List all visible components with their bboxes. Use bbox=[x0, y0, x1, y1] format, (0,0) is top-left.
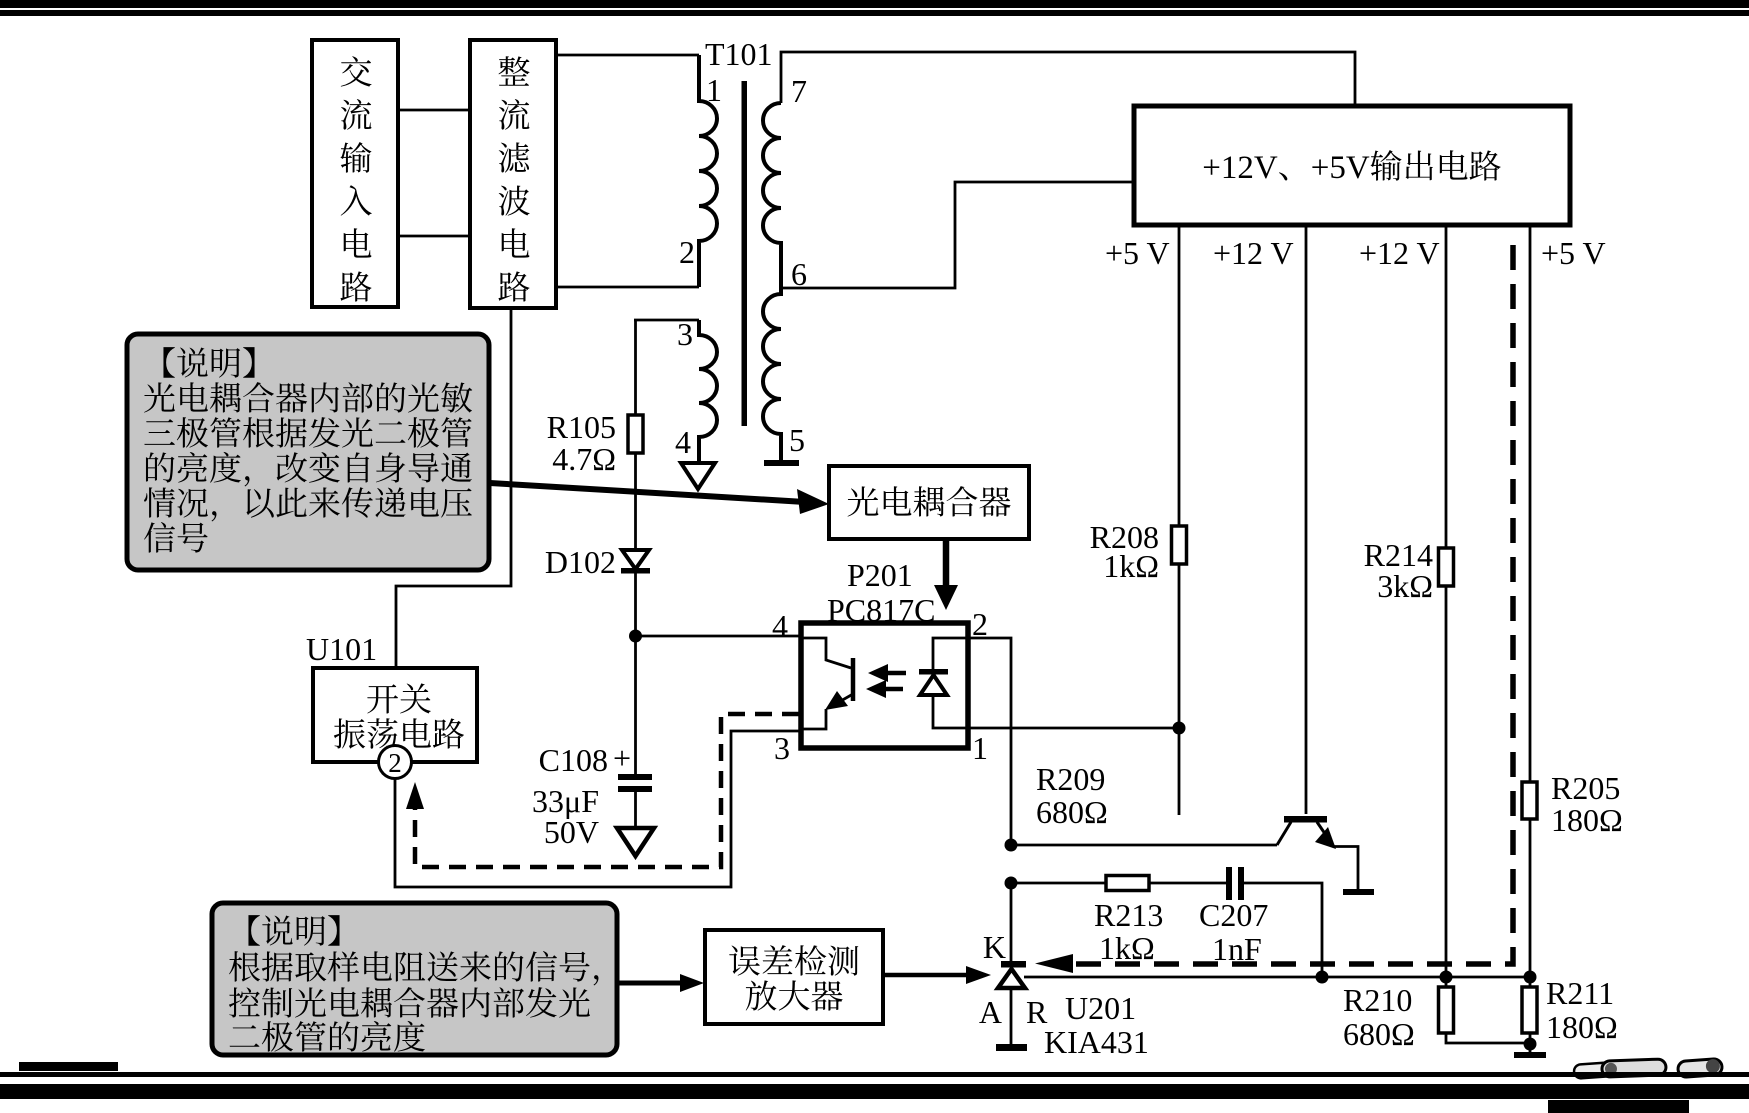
svg-text:光电耦合器: 光电耦合器 bbox=[847, 477, 1012, 524]
wire T101 pin7 top to output box bbox=[781, 52, 1355, 106]
+12V rail 1 label bbox=[1213, 235, 1294, 271]
wire KIA431 K node up / R213 branch bbox=[1011, 882, 1106, 885]
svg-text:D102: D102 bbox=[545, 544, 616, 580]
thick arrow photocoupler box to P201 bbox=[934, 539, 958, 610]
hot ground under C108 bbox=[617, 828, 654, 856]
node: R wire / R210 junction bbox=[1440, 971, 1453, 984]
svg-text:P201: P201 bbox=[847, 557, 913, 593]
svg-text:R211: R211 bbox=[1546, 975, 1614, 1011]
svg-text:电: 电 bbox=[340, 219, 373, 266]
shunt regulator U201 triangle bbox=[998, 969, 1025, 988]
resistor R105 symbol bbox=[628, 415, 643, 453]
pin 4 label bbox=[772, 608, 788, 644]
opto phototransistor collector bbox=[801, 638, 851, 668]
svg-text:4.7Ω: 4.7Ω bbox=[552, 441, 616, 477]
pin 2 label bbox=[972, 606, 988, 642]
R211 value label bbox=[1546, 975, 1618, 1045]
wire D102 to C108 bbox=[634, 573, 637, 775]
U201 KIA431 type label bbox=[1044, 1024, 1149, 1060]
+12V rail 2 wire bbox=[1445, 225, 1448, 987]
svg-text:二极管的亮度: 二极管的亮度 bbox=[228, 1012, 426, 1059]
wire AC box to rectifier box (upper) bbox=[398, 109, 470, 112]
svg-text:R213: R213 bbox=[1094, 897, 1163, 933]
+5V rail 1 wire bbox=[1178, 225, 1181, 815]
svg-text:680Ω: 680Ω bbox=[1343, 1016, 1415, 1052]
note box 1 说明 bbox=[127, 334, 489, 570]
svg-text:180Ω: 180Ω bbox=[1546, 1009, 1618, 1045]
pin 7 label bbox=[791, 73, 807, 109]
wire node to transistor collector bbox=[1011, 844, 1277, 847]
svg-text:R205: R205 bbox=[1551, 770, 1620, 806]
opto phototransistor emitter with arrow bbox=[801, 691, 853, 729]
transistor Q201 collector bbox=[1277, 822, 1291, 845]
svg-text:电: 电 bbox=[498, 219, 531, 266]
resistor R205 symbol bbox=[1522, 782, 1537, 819]
resistor R105 label bbox=[547, 409, 616, 477]
diode D102 label bbox=[545, 544, 616, 580]
svg-text:路: 路 bbox=[340, 262, 373, 309]
svg-text:3kΩ: 3kΩ bbox=[1377, 568, 1433, 604]
block: switching oscillator U101 开关振荡电路 bbox=[313, 668, 477, 762]
U101 reference label bbox=[306, 631, 377, 667]
note box 2 说明 bbox=[212, 903, 624, 1059]
pin 5 terminal bar bbox=[764, 460, 799, 466]
svg-text:1: 1 bbox=[972, 730, 988, 766]
diode D102 symbol bbox=[621, 550, 650, 574]
svg-text:入: 入 bbox=[340, 176, 373, 223]
wire rectifier box to T101 pin2 bbox=[556, 286, 699, 289]
node: R wire / C207 junction bbox=[1316, 971, 1329, 984]
svg-text:R210: R210 bbox=[1343, 982, 1412, 1018]
transformer T101 secondary winding 6-5 bbox=[763, 288, 781, 461]
KIA431 K label bbox=[983, 929, 1006, 965]
U201 reference label bbox=[1065, 990, 1136, 1026]
svg-text:1: 1 bbox=[706, 72, 722, 108]
svg-text:放大器: 放大器 bbox=[745, 971, 844, 1018]
wire R213 to C207 bbox=[1149, 882, 1227, 885]
svg-text:3: 3 bbox=[774, 730, 790, 766]
+5V rail 1 label bbox=[1105, 235, 1170, 271]
wire winding3 top to R105 line bbox=[634, 319, 699, 322]
svg-text:5: 5 bbox=[789, 422, 805, 458]
KIA431 R terminal wire to divider bbox=[1024, 976, 1530, 979]
wire rectifier box to T101 pin1 bbox=[556, 54, 699, 57]
node: R wire / R211 junction bbox=[1524, 971, 1537, 984]
bottom thin rule bbox=[0, 1072, 1749, 1077]
svg-text:680Ω: 680Ω bbox=[1036, 794, 1108, 830]
svg-text:输: 输 bbox=[340, 133, 373, 180]
svg-text:路: 路 bbox=[498, 262, 531, 309]
wire C207 to R terminal node bbox=[1244, 883, 1322, 977]
+5V rail 2 label bbox=[1541, 235, 1606, 271]
svg-text:K: K bbox=[983, 929, 1006, 965]
KIA431 anode wire bbox=[1010, 988, 1013, 1044]
node: opto pin1 to +5V rail junction bbox=[1173, 722, 1186, 735]
svg-text:R105: R105 bbox=[547, 409, 616, 445]
block: photocoupler 光电耦合器 bbox=[829, 466, 1029, 539]
block: rectifier filter circuit 整流滤波电路 bbox=[470, 40, 556, 309]
svg-text:1kΩ: 1kΩ bbox=[1099, 930, 1155, 966]
svg-text:流: 流 bbox=[498, 90, 531, 137]
dashed feedback arrowhead at pin2 circle bbox=[406, 782, 424, 809]
svg-text:U101: U101 bbox=[306, 631, 377, 667]
arrow error amp to KIA431 K bbox=[883, 966, 991, 984]
KIA431 anode end bar bbox=[996, 1044, 1027, 1051]
R205 value label bbox=[1551, 770, 1623, 838]
C207 value label bbox=[1199, 897, 1268, 967]
R210 value label bbox=[1343, 982, 1415, 1052]
node: R213 wire junction bbox=[1005, 877, 1018, 890]
capacitor C108 label bbox=[532, 740, 631, 850]
opto LED symbol bbox=[919, 638, 968, 728]
svg-text:4: 4 bbox=[772, 608, 788, 644]
resistor R210 symbol bbox=[1439, 987, 1454, 1033]
bottom thick bar bbox=[0, 1084, 1749, 1099]
arrow note1 to photocoupler box bbox=[490, 483, 829, 514]
resistor R208 symbol bbox=[1172, 526, 1187, 564]
svg-text:2: 2 bbox=[388, 748, 402, 778]
node: R210/R211 bottom junction bbox=[1524, 1038, 1537, 1051]
wire opto pin1 to +5V rail bbox=[968, 727, 1179, 730]
svg-text:+12 V: +12 V bbox=[1213, 235, 1294, 271]
svg-text:A: A bbox=[979, 994, 1002, 1030]
svg-text:T101: T101 bbox=[705, 36, 773, 72]
opto phototransistor bar bbox=[851, 658, 856, 701]
ground bar under R211 bbox=[1514, 1052, 1546, 1058]
resistor R209 label bbox=[1036, 761, 1108, 830]
R213 value label bbox=[1094, 897, 1163, 966]
transformer T101 primary winding 1-2 bbox=[699, 55, 717, 287]
transistor Q201 base bar bbox=[1284, 816, 1327, 823]
node: collector wire junction bbox=[1005, 839, 1018, 852]
svg-text:7: 7 bbox=[791, 73, 807, 109]
pin 3 label bbox=[774, 730, 790, 766]
pin 2 label bbox=[679, 234, 695, 270]
svg-text:+5 V: +5 V bbox=[1541, 235, 1606, 271]
svg-text:+: + bbox=[613, 740, 631, 776]
KIA431 cathode bar bbox=[1001, 961, 1026, 968]
dashed feedback path opto pin3 to U101 pin2 bbox=[415, 714, 799, 867]
svg-text:4: 4 bbox=[675, 424, 691, 460]
svg-text:流: 流 bbox=[340, 90, 373, 137]
svg-text:1nF: 1nF bbox=[1212, 931, 1262, 967]
KIA431 A label bbox=[979, 994, 1002, 1030]
KIA431 R label bbox=[1026, 994, 1048, 1030]
wire T101 pin6 to output box bbox=[781, 182, 1134, 288]
svg-text:50V: 50V bbox=[544, 814, 599, 850]
bottom right black tab bbox=[1548, 1100, 1689, 1113]
svg-text:180Ω: 180Ω bbox=[1551, 802, 1623, 838]
resistor R213 symbol bbox=[1106, 876, 1149, 891]
+12V rail 1 wire (to transistor base) bbox=[1305, 225, 1308, 814]
pin 6 label bbox=[791, 256, 807, 292]
pin 1 label bbox=[706, 72, 722, 108]
top border bar bbox=[0, 0, 1749, 16]
transformer T101 secondary winding 7-6 bbox=[763, 103, 781, 288]
block: +12V/+5V output circuit bbox=[1134, 106, 1570, 225]
wire rectifier box bottom to U101 bbox=[396, 308, 511, 668]
capacitor C108 symbol bbox=[618, 774, 652, 792]
dashed +5V feedback line bbox=[1056, 245, 1513, 964]
wire opto pin2 down to R209 node bbox=[968, 638, 1011, 845]
dashed feedback arrowhead at KIA431 K bbox=[1035, 954, 1073, 973]
wire R105 to D102 bbox=[634, 453, 637, 549]
svg-text:滤: 滤 bbox=[498, 133, 531, 180]
svg-text:信号: 信号 bbox=[143, 513, 209, 560]
svg-text:2: 2 bbox=[679, 234, 695, 270]
resistor R214 symbol bbox=[1439, 548, 1454, 586]
transistor emitter ground bar bbox=[1343, 889, 1374, 895]
svg-text:交: 交 bbox=[340, 47, 373, 94]
arrow note2 to error amp bbox=[617, 974, 704, 992]
R214 value label bbox=[1364, 537, 1433, 604]
wire winding3 to R105 bbox=[634, 320, 637, 418]
capacitor C207 symbol bbox=[1226, 867, 1244, 900]
pin 1 label bbox=[972, 730, 988, 766]
svg-text:R209: R209 bbox=[1036, 761, 1105, 797]
hot ground under pin 4 bbox=[681, 463, 715, 489]
wire KIA431 cathode bbox=[1010, 883, 1013, 962]
U101 pin 2 circle bbox=[379, 746, 412, 779]
bottom left short bar bbox=[19, 1062, 118, 1071]
decorative screws bottom right bbox=[1574, 1058, 1723, 1078]
svg-text:C207: C207 bbox=[1199, 897, 1268, 933]
pin 3 label bbox=[677, 316, 693, 352]
optocoupler P201 body bbox=[801, 623, 968, 748]
svg-text:波: 波 bbox=[498, 176, 531, 223]
svg-text:U201: U201 bbox=[1065, 990, 1136, 1026]
svg-text:+5 V: +5 V bbox=[1105, 235, 1170, 271]
pin 5 label bbox=[789, 422, 805, 458]
transformer T101 label bbox=[705, 36, 773, 72]
transformer T101 core bbox=[742, 81, 748, 426]
wire AC box to rectifier box (lower) bbox=[398, 235, 470, 238]
pin 4 label bbox=[675, 424, 691, 460]
svg-text:3: 3 bbox=[677, 316, 693, 352]
+12V rail 2 label bbox=[1359, 235, 1440, 271]
block: error detection amplifier 误差检测放大器 bbox=[705, 930, 883, 1024]
svg-text:+12 V: +12 V bbox=[1359, 235, 1440, 271]
svg-text:C108: C108 bbox=[539, 742, 608, 778]
block: AC input circuit 交流输入电路 bbox=[312, 40, 398, 309]
+5V rail 2 wire bbox=[1529, 225, 1532, 1044]
node: D102/C108/opto pin4 junction bbox=[629, 630, 642, 643]
opto light arrows bbox=[866, 664, 906, 698]
wire junction to opto pin 4 bbox=[636, 635, 802, 638]
resistor R211 symbol bbox=[1522, 987, 1537, 1033]
wire R210 bottom to R211 bottom bbox=[1446, 1033, 1530, 1052]
svg-text:整: 整 bbox=[498, 47, 531, 94]
transistor Q201 emitter with arrow bbox=[1315, 822, 1358, 890]
transformer T101 winding 3-4 bbox=[699, 320, 717, 461]
svg-text:1kΩ: 1kΩ bbox=[1103, 548, 1159, 584]
wire opto pin3 to U101 pin2 (solid loop) bbox=[395, 731, 801, 887]
optocoupler P201 reference label bbox=[827, 557, 935, 628]
wire C108 to hot ground bbox=[634, 792, 637, 827]
svg-text:KIA431: KIA431 bbox=[1044, 1024, 1149, 1060]
svg-text:+12V、+5V输出电路: +12V、+5V输出电路 bbox=[1202, 141, 1501, 188]
R208 value label bbox=[1090, 519, 1159, 584]
